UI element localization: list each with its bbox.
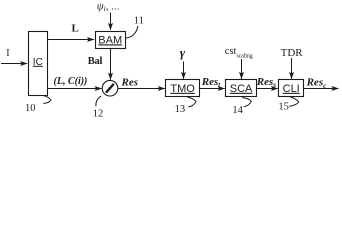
net label Res_t: [201, 76, 222, 89]
net label (L, C(i)): [54, 76, 88, 87]
net label Res_s: [256, 76, 277, 89]
reference numeral 15: [278, 102, 289, 113]
svg-text:TDR: TDR: [281, 47, 304, 59]
svg-text:Bal: Bal: [88, 56, 103, 67]
net label L: [72, 23, 79, 35]
reference numeral 12: [93, 109, 104, 120]
svg-text:14: 14: [232, 105, 243, 116]
reference numeral 11: [134, 16, 144, 27]
wire psi input arrow into BAM: [110, 13, 112, 30]
node label I: [6, 48, 9, 59]
leader line for 10: [43, 96, 51, 104]
leader line for 14: [242, 98, 251, 107]
wire gamma input arrow into TMO: [183, 62, 185, 79]
net label Res: [121, 76, 139, 88]
svg-text:L: L: [72, 23, 79, 35]
reference numeral 14: [232, 105, 243, 116]
svg-text:γ: γ: [180, 45, 186, 60]
svg-text:12: 12: [93, 109, 104, 120]
svg-text:(L, C(i)): (L, C(i)): [54, 76, 88, 87]
wire Res_c output from CLI: [304, 88, 339, 90]
mixer circle 12: [102, 80, 118, 96]
reference numeral 10: [25, 103, 36, 114]
wire Bal from BAM down to mixer: [110, 49, 112, 80]
svg-text:TMO: TMO: [170, 83, 195, 95]
svg-text:13: 13: [175, 104, 186, 115]
wire I input arrow: [1, 63, 27, 65]
svg-text:Res: Res: [121, 76, 139, 88]
svg-text:CLI: CLI: [283, 83, 300, 95]
net label Res_c: [306, 77, 327, 90]
block IC: [29, 32, 48, 96]
leader line for 13: [188, 97, 197, 107]
block CLI: [279, 80, 304, 97]
net label TDR: [281, 47, 304, 59]
svg-text:BAM: BAM: [98, 34, 122, 46]
block BAM: [96, 32, 126, 49]
wire Res_s from SCA to CLI: [257, 88, 278, 90]
block TMO: [166, 80, 200, 97]
svg-text:I: I: [6, 48, 9, 59]
reference numeral 13: [175, 104, 186, 115]
leader line for 11: [126, 26, 138, 38]
svg-text:SCA: SCA: [230, 83, 253, 95]
svg-text:IC: IC: [33, 57, 43, 68]
wire Res_t from TMO to SCA: [200, 88, 225, 90]
wire L from IC to BAM: [48, 39, 95, 41]
svg-text:10: 10: [25, 103, 36, 114]
svg-text:ψi, ...: ψi, ...: [97, 0, 120, 13]
svg-text:Rest: Rest: [201, 76, 222, 89]
svg-text:11: 11: [134, 16, 144, 27]
wire Res from mixer to TMO: [118, 88, 165, 90]
net label gamma: [180, 45, 186, 60]
block SCA: [226, 80, 257, 97]
net label psi_i: [97, 0, 120, 13]
wire (L,C(i)) from IC to mixer: [48, 88, 102, 90]
leader line for 15: [289, 97, 298, 106]
net label cst_scaling: [225, 46, 253, 59]
wire TDR input arrow into CLI: [291, 58, 293, 79]
leader line for 12: [96, 96, 101, 106]
svg-text:Ress: Ress: [256, 76, 277, 89]
net label Bal: [88, 56, 103, 67]
svg-text:15: 15: [278, 102, 289, 113]
wire cst input arrow into SCA: [241, 59, 243, 79]
